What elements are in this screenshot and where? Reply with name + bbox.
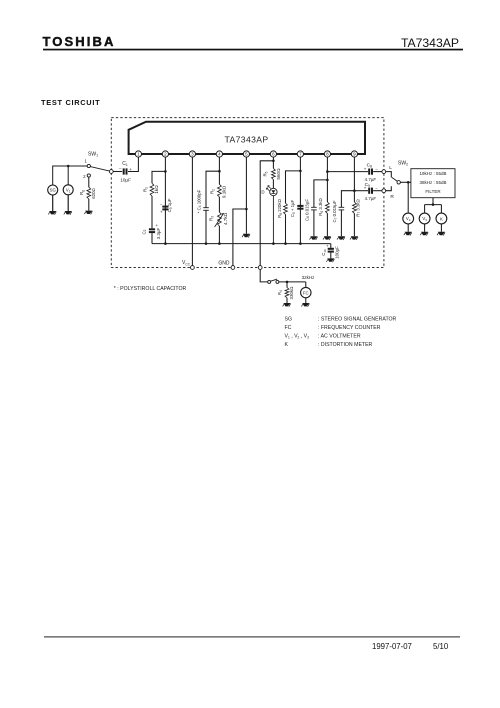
capacitor C3 1uF on pin 2: [160, 198, 173, 214]
svg-text:V1 , V2 , V3: V1 , V2 , V3: [285, 333, 310, 339]
IC U1 TA7343AP body: [129, 122, 365, 154]
svg-text:38kHz : 55dB: 38kHz : 55dB: [419, 180, 446, 185]
svg-text:1kΩ: 1kΩ: [154, 185, 159, 194]
ground below V2: [404, 224, 412, 236]
resistor R5 560ohm: [263, 168, 281, 180]
wire pin8 branch to C6: [314, 180, 328, 207]
svg-text:FC: FC: [303, 290, 309, 295]
junction pin 8 to C6 branch: [326, 179, 329, 182]
wire SW2 pole to measurement node: [400, 181, 411, 183]
R output terminal: [382, 189, 395, 200]
rail junction: [218, 242, 221, 245]
svg-text:C7 0.015µF: C7 0.015µF: [332, 200, 338, 222]
svg-text:−: −: [375, 166, 378, 171]
svg-text:TA7343AP: TA7343AP: [224, 134, 268, 144]
svg-text:FILTER: FILTER: [425, 189, 441, 194]
svg-text:SW1: SW1: [88, 152, 98, 158]
junction pin 6 to FC branch: [272, 160, 275, 163]
svg-text:R: R: [390, 194, 394, 200]
svg-text:32kHz: 32kHz: [302, 275, 316, 280]
ground below pin 5: [242, 234, 250, 238]
header TOSHIBA logo text: [43, 34, 116, 49]
svg-text:C9: C9: [365, 182, 370, 188]
resistor R7 3.3kohm: [353, 199, 362, 237]
svg-text:R2: R2: [210, 189, 216, 194]
IC pin 8: [324, 151, 330, 157]
svg-text:C5 + 1µF: C5 + 1µF: [290, 199, 296, 217]
svg-text:SG: SG: [50, 188, 57, 193]
svg-text:−: −: [119, 167, 122, 172]
rail junction: [299, 242, 302, 245]
wire pin9 branch to C7: [341, 191, 354, 208]
svg-text:4.7µF: 4.7µF: [365, 177, 377, 182]
svg-text:C6 0.015µF: C6 0.015µF: [304, 199, 310, 221]
ground below C10: [326, 258, 334, 262]
section title TEST CIRCUIT: [41, 98, 100, 107]
wire node to FC switch: [260, 269, 267, 282]
variable resistor R3 4.7kohm: [209, 212, 228, 243]
svg-text:9.1kΩ: 9.1kΩ: [221, 185, 226, 198]
footer rule: [44, 636, 460, 637]
svg-text:+: +: [326, 243, 329, 248]
switch SW2: [386, 161, 408, 191]
capacitor C9 4.7uF R output: [364, 182, 382, 201]
svg-text:19kHz : 55dB: 19kHz : 55dB: [419, 171, 446, 176]
wire C1 to pin 1: [137, 157, 139, 172]
svg-text:560Ω: 560Ω: [276, 168, 281, 180]
ground below K: [437, 224, 445, 236]
svg-text:* : POLYSTIROLL CAPACITOR: * : POLYSTIROLL CAPACITOR: [114, 286, 187, 292]
junction pin 5 to GND branch: [245, 208, 248, 211]
ground below C6: [310, 236, 318, 240]
resistor R8 220kohm: [277, 198, 287, 243]
svg-text:K: K: [285, 342, 289, 348]
svg-text:K: K: [440, 216, 443, 221]
header part number TA7343AP: [401, 36, 459, 50]
rail junction: [272, 242, 275, 245]
svg-text:R6 3.3kΩ: R6 3.3kΩ: [318, 198, 324, 216]
voltmeter V3: [419, 213, 430, 224]
wire node to voltmeter V2: [407, 182, 409, 213]
ground below R6: [323, 236, 331, 240]
svg-text:1: 1: [85, 159, 88, 164]
wire pin7 branch to R8: [286, 171, 301, 203]
capacitor C5 1uF on pin 7: [290, 199, 303, 217]
wire filter output tee: [425, 198, 442, 214]
wire pin 5 down: [245, 157, 247, 234]
svg-text:+: +: [129, 167, 132, 172]
header rule: [43, 49, 463, 51]
signal generator SG: [48, 185, 58, 195]
svg-text:330kΩ: 330kΩ: [289, 286, 294, 300]
svg-text:L: L: [389, 165, 392, 171]
wire pin6 branch down to FC node: [260, 161, 273, 266]
capacitor C6 0.015uF: [304, 199, 316, 237]
Vcc terminal: [182, 260, 194, 269]
svg-text:: FREQUENCY COUNTER: : FREQUENCY COUNTER: [318, 325, 381, 331]
ground below SG: [48, 195, 56, 215]
voltmeter V1: [63, 185, 73, 195]
ground below Rg: [84, 211, 92, 215]
junction pin 2 branch: [164, 170, 167, 173]
distortion meter K: [436, 213, 447, 224]
svg-text:R3: R3: [209, 216, 215, 221]
switch SW1: [83, 152, 113, 180]
IC pin 3: [189, 151, 195, 157]
wire R1 to C2: [151, 196, 153, 228]
svg-text:: AC VOLTMETER: : AC VOLTMETER: [318, 333, 361, 339]
rail junction: [205, 242, 208, 245]
wire pin 6 down through R5 LED to rail: [272, 157, 274, 168]
svg-text:−: −: [375, 186, 378, 191]
svg-text:V2: V2: [406, 216, 411, 222]
ground below C7: [337, 236, 345, 240]
rail junction: [164, 242, 167, 245]
wire pin 7 down through C5 to rail: [299, 157, 301, 244]
wire pin4 branch to C4: [206, 171, 219, 207]
svg-text:SW2: SW2: [398, 161, 408, 167]
svg-text:VCC: VCC: [182, 260, 191, 266]
junction V1 branch: [67, 165, 70, 168]
capacitor C1 10uF input coupling: [113, 161, 138, 182]
wire SG/V1 to SW1 contact 1: [53, 166, 87, 185]
filter block 19kHz/38kHz 55dB: [411, 169, 455, 198]
svg-text:4.7µF: 4.7µF: [365, 196, 377, 201]
capacitor C10 100uF: [321, 243, 339, 258]
ground rail wire: [152, 243, 331, 245]
wire switch to R4/FC: [279, 281, 306, 288]
dashed circuit boundary box: [111, 118, 384, 268]
junction measurement node: [407, 181, 410, 184]
frequency counter FC: [301, 275, 316, 298]
ground below R7: [350, 236, 358, 240]
svg-text:TOSHIBA: TOSHIBA: [43, 34, 116, 49]
switch to frequency counter: [268, 279, 279, 283]
svg-text:C1: C1: [122, 161, 128, 167]
wire pin 9 to C9: [354, 190, 368, 192]
legend: [285, 317, 397, 348]
ground below V1: [64, 195, 72, 215]
L output terminal: [382, 165, 392, 174]
svg-text:R5: R5: [263, 171, 269, 176]
ground below R4: [283, 303, 291, 307]
svg-text:5/10: 5/10: [433, 642, 449, 651]
wire pin 9 down through R7 to ground: [353, 157, 355, 202]
svg-text:GND: GND: [218, 260, 230, 266]
wire pin 3 to Vcc terminal: [191, 157, 193, 266]
svg-text:: STEREO SIGNAL GENERATOR: : STEREO SIGNAL GENERATOR: [318, 317, 397, 323]
svg-text:100µF: 100µF: [334, 246, 339, 259]
junction pin 4 branch: [218, 170, 221, 173]
svg-text:TEST CIRCUIT: TEST CIRCUIT: [41, 98, 100, 107]
footer date and page: [372, 642, 449, 651]
capacitor C4 1000pF polystyrol: [196, 189, 208, 243]
ground below V3: [420, 224, 428, 236]
IC pin 7: [297, 151, 303, 157]
resistor R1 1kohm: [143, 183, 160, 196]
svg-text:Rg: Rg: [79, 190, 85, 195]
svg-text:C2: C2: [141, 229, 147, 234]
IC pin 1: [135, 151, 141, 157]
svg-text:R7 3.3kΩ: R7 3.3kΩ: [355, 199, 361, 217]
LED D: [261, 180, 277, 244]
svg-text:C3 1µF: C3 1µF: [167, 198, 173, 212]
IC pin 9: [351, 151, 357, 157]
wire pin 8 to C8: [327, 171, 368, 173]
node pin6 branch on boundary: [258, 266, 262, 270]
capacitor C8 4.7uF L output: [364, 162, 382, 181]
svg-text:V3: V3: [422, 216, 427, 222]
wire pin 8 down through R6 to ground: [326, 157, 328, 202]
capacitor C7 0.015uF: [332, 200, 344, 236]
wire pin5 branch to GND terminal: [233, 209, 247, 266]
IC pin 4: [216, 151, 222, 157]
IC pin 5: [243, 151, 249, 157]
resistor R4 330kohm: [277, 282, 294, 303]
rail junction: [284, 242, 287, 245]
svg-text:+: +: [156, 223, 159, 228]
svg-text:R1: R1: [143, 187, 149, 192]
svg-text:4.7kΩ: 4.7kΩ: [223, 212, 228, 225]
wire pin2 branch to R1: [152, 171, 165, 183]
note polystyrol capacitor: [114, 286, 187, 292]
svg-text:D: D: [261, 189, 264, 194]
svg-text:C8: C8: [367, 162, 372, 168]
wire R2 to R3: [218, 197, 220, 212]
voltmeter V2: [403, 213, 414, 224]
svg-text:R4: R4: [277, 290, 283, 295]
junction pin 8 to C8 output: [326, 170, 329, 173]
IC pin 6: [270, 151, 276, 157]
svg-text:620Ω: 620Ω: [91, 187, 96, 198]
svg-text:1997-07-07: 1997-07-07: [372, 642, 412, 651]
svg-text:C10: C10: [321, 249, 327, 256]
junction pin 9 node: [353, 189, 356, 192]
resistor R2 9.1kohm: [210, 184, 227, 198]
svg-text:TA7343AP: TA7343AP: [401, 36, 459, 50]
resistor R6 3.3kohm: [318, 198, 329, 237]
svg-text:3.3µF: 3.3µF: [156, 227, 161, 239]
svg-text:R8 220kΩ: R8 220kΩ: [277, 198, 283, 217]
svg-text:FC: FC: [285, 325, 292, 331]
IC pin 2: [162, 151, 168, 157]
capacitor C2 3.3uF: [141, 223, 161, 244]
wire pin 4 down through R2 R3 to rail: [218, 157, 220, 184]
svg-text:10µF: 10µF: [120, 178, 131, 183]
ground below FC: [301, 298, 309, 307]
svg-text:SG: SG: [285, 317, 293, 323]
junction pin 7 to R8 branch: [299, 170, 302, 173]
wire pin 2 down to ground rail: [164, 157, 166, 244]
GND terminal: [218, 260, 234, 269]
svg-text:: DISTORTION METER: : DISTORTION METER: [318, 342, 373, 348]
svg-text:* C4 1000pF: * C4 1000pF: [196, 189, 202, 213]
resistor Rg 620ohm: [79, 177, 96, 211]
svg-text:2: 2: [83, 174, 86, 179]
